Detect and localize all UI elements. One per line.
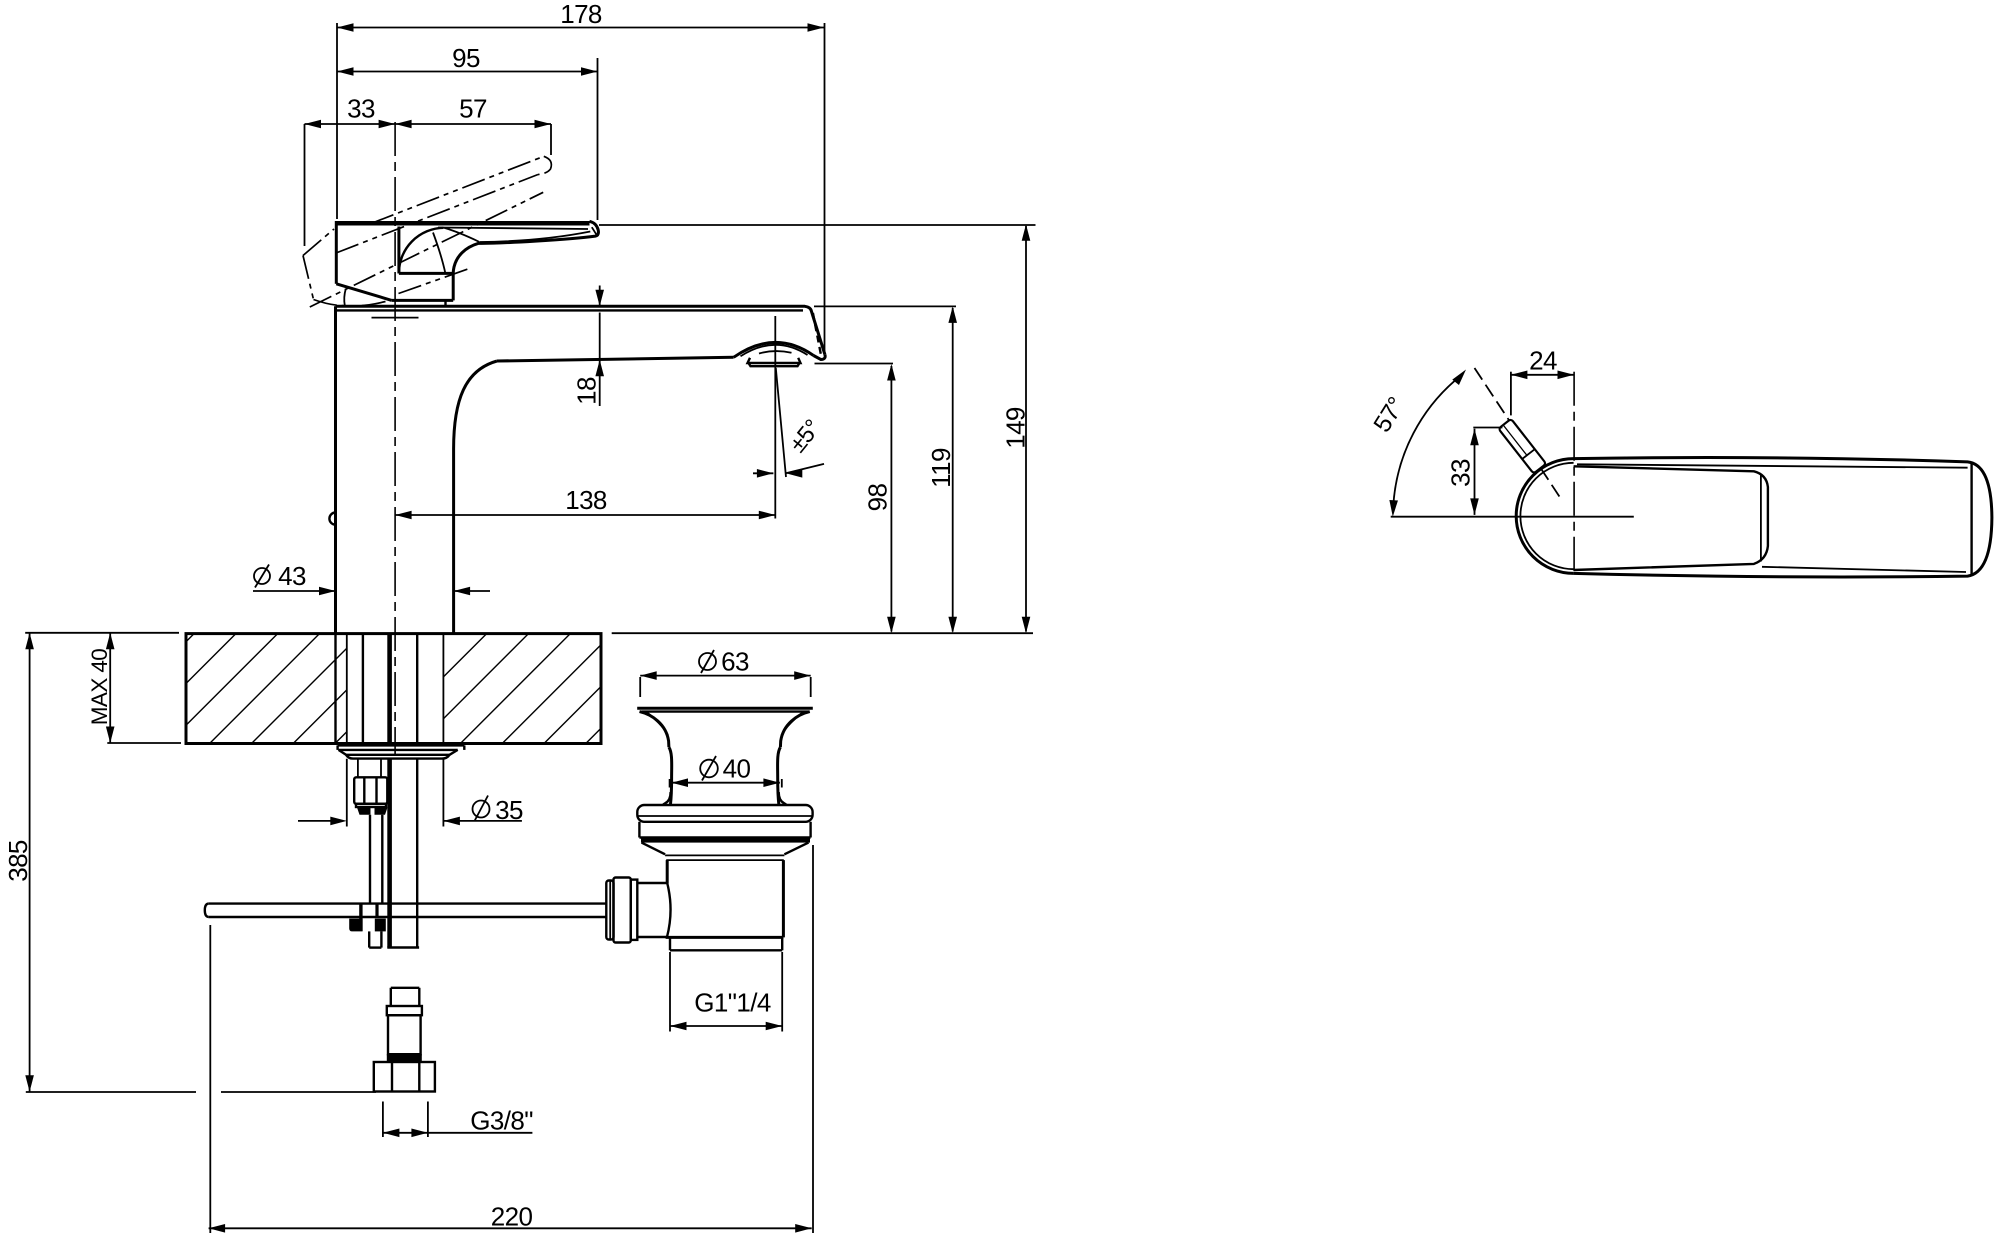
supply connector seal band bbox=[387, 1054, 422, 1062]
handle tip inner line bbox=[592, 227, 597, 235]
supply connector collar bbox=[387, 1006, 422, 1015]
shank outer edge in hole bbox=[334, 634, 336, 744]
rod clamp bbox=[349, 904, 386, 932]
top view handle outer outline bbox=[1574, 458, 1992, 577]
supply connector nut bbox=[374, 1062, 435, 1092]
diameter 35 extension lines bbox=[346, 759, 348, 827]
extension line counter bottom left bbox=[107, 742, 181, 744]
cartridge neck inner curve bbox=[444, 228, 480, 242]
cap plinth top edge bbox=[399, 272, 453, 275]
extension line counter top level bbox=[612, 632, 1033, 634]
drain funnel inner right bbox=[782, 712, 804, 736]
cap plinth right edge bbox=[452, 273, 455, 300]
svg-text:57: 57 bbox=[459, 94, 487, 124]
svg-text:220: 220 bbox=[491, 1202, 533, 1232]
drain flange top bbox=[637, 707, 813, 710]
spout tip inner slant bbox=[813, 313, 821, 355]
dim 138 bbox=[395, 485, 775, 519]
phantom open handle lever lower edge bbox=[336, 175, 538, 254]
top view bottom chamfer line bbox=[1762, 567, 1966, 572]
svg-text:G1"1/4: G1"1/4 bbox=[694, 988, 771, 1018]
extension line outlet level bbox=[815, 363, 894, 365]
cap plinth bottom edge bbox=[392, 299, 454, 302]
handle lever tip and underside bbox=[453, 221, 598, 273]
cartridge dome inner curve bbox=[433, 233, 445, 274]
drain body shoulder bbox=[642, 843, 809, 861]
dim 57 bbox=[395, 94, 551, 156]
extension line handle top level bbox=[599, 224, 1036, 226]
centerline faucet axis bbox=[394, 122, 396, 755]
handle lever top plate bbox=[336, 221, 589, 226]
dim 98 bbox=[863, 364, 896, 633]
dim 220 bbox=[209, 1202, 812, 1233]
svg-text:95: 95 bbox=[452, 43, 480, 73]
svg-text:33: 33 bbox=[1446, 459, 1476, 487]
svg-text:43: 43 bbox=[278, 561, 306, 591]
aerator ring bbox=[748, 358, 801, 363]
spout top surface lower line bbox=[336, 309, 804, 311]
countertop section bbox=[186, 634, 601, 744]
svg-text:MAX 40: MAX 40 bbox=[87, 649, 112, 726]
supply connector top bbox=[391, 988, 420, 1006]
countertop hatching bbox=[186, 634, 194, 642]
svg-text:385: 385 bbox=[3, 840, 33, 882]
aerator bulge inner bbox=[741, 345, 808, 356]
top view vertical centerline bbox=[1573, 372, 1575, 575]
drain gland nut bbox=[614, 878, 631, 943]
phantom handle block left edge bbox=[303, 256, 314, 300]
svg-text:35: 35 bbox=[495, 795, 523, 825]
dim 95 bbox=[337, 43, 598, 220]
drain funnel left side bbox=[640, 712, 669, 748]
jet centerline bbox=[774, 316, 776, 519]
extension line hose end level bbox=[26, 1091, 196, 1093]
rod lower stub bbox=[369, 931, 381, 947]
mounting hole right edge bbox=[442, 634, 444, 744]
extension line counter top left bbox=[25, 632, 179, 634]
dim plus-minus 5 degrees bbox=[753, 415, 825, 478]
flange washer bbox=[338, 745, 465, 758]
cap base step bbox=[444, 300, 446, 306]
drain tailpipe bbox=[670, 937, 782, 950]
drain gland end cap bbox=[606, 881, 613, 940]
phantom handle block top edge bbox=[303, 229, 334, 256]
drain funnel foot right bbox=[779, 792, 787, 805]
pop-up rod bbox=[205, 904, 606, 917]
drain top disk bbox=[637, 805, 812, 822]
dim 385 bbox=[3, 633, 34, 1092]
dim 18 bbox=[572, 286, 605, 407]
mounting hole left edge bbox=[346, 634, 348, 744]
dim 33 top view bbox=[1446, 428, 1503, 515]
extension line 220 left bbox=[209, 925, 211, 1233]
spout underside bbox=[497, 357, 734, 361]
dim G3/8 bbox=[383, 1102, 533, 1138]
supply connector body bbox=[388, 1015, 421, 1054]
spout top surface upper line bbox=[336, 306, 825, 354]
cartridge dome arc bbox=[399, 228, 444, 274]
stem axis line bbox=[1475, 368, 1562, 500]
dim 33 bbox=[305, 94, 396, 247]
handle body left edge bbox=[335, 221, 338, 284]
svg-text:178: 178 bbox=[560, 0, 602, 29]
top view chamfer line bbox=[1577, 464, 1968, 467]
dim diameter 40 bbox=[670, 754, 782, 788]
dim 57 degrees arc bbox=[1369, 367, 1469, 517]
aerator inner arc bbox=[759, 351, 792, 353]
drain side port boss bbox=[638, 883, 671, 937]
drain body bbox=[666, 860, 784, 937]
phantom open handle underside bbox=[399, 269, 469, 294]
phantom handle block bottom edge bbox=[314, 300, 391, 306]
nut washer bbox=[356, 804, 386, 807]
top view pad end inner line bbox=[1760, 474, 1762, 562]
drain funnel inner left bbox=[646, 712, 668, 736]
svg-text:18: 18 bbox=[572, 377, 602, 405]
drain funnel right side bbox=[780, 712, 809, 748]
phantom open handle lever top bbox=[371, 156, 544, 223]
top view pad outline bbox=[1574, 466, 1768, 570]
svg-text:98: 98 bbox=[863, 484, 893, 512]
mounting stud bbox=[357, 759, 359, 778]
handle underside inner line bbox=[480, 232, 590, 243]
shank wall left bbox=[362, 634, 364, 746]
svg-text:138: 138 bbox=[565, 485, 607, 515]
hex nut bbox=[354, 777, 387, 804]
svg-text:119: 119 bbox=[926, 448, 956, 488]
phantom open handle lever bottom bbox=[310, 192, 543, 307]
dim MAX 40 bbox=[87, 633, 115, 743]
top view handle cap inner arc bbox=[1520, 463, 1573, 569]
dim diameter 35 bbox=[298, 795, 523, 825]
hose wall left upper bbox=[387, 634, 392, 746]
handle body bottom slant bbox=[336, 284, 391, 301]
drain funnel foot left bbox=[663, 792, 671, 805]
centerline tick bbox=[372, 317, 419, 319]
drain gasket bbox=[641, 838, 810, 842]
top view horizontal centerline bbox=[1391, 516, 1634, 518]
dim G1 1/4 bbox=[670, 952, 782, 1032]
drain funnel waist sides bbox=[669, 747, 672, 805]
top view handle cap arc bbox=[1516, 459, 1573, 574]
rubber cone seal bbox=[357, 808, 371, 815]
pull rod bbox=[369, 815, 371, 904]
dim 119 bbox=[926, 306, 957, 633]
dim diameter 63 bbox=[640, 647, 811, 698]
body column left edge bbox=[334, 306, 337, 633]
jet tilt line bbox=[776, 368, 786, 477]
drain band bbox=[639, 822, 810, 838]
drain gland spacer bbox=[631, 880, 638, 940]
svg-text:G3/8": G3/8" bbox=[470, 1106, 533, 1136]
dim 149 bbox=[1001, 224, 1031, 633]
phantom handle swing arc bbox=[344, 289, 346, 306]
spout tip bottom bbox=[814, 355, 826, 360]
phantom open handle tip arc bbox=[538, 156, 551, 174]
dim diameter 43 bbox=[253, 561, 490, 595]
extension line spout top level bbox=[814, 305, 956, 307]
svg-text:24: 24 bbox=[1529, 346, 1557, 376]
svg-text:40: 40 bbox=[723, 754, 751, 784]
svg-text:149: 149 bbox=[1001, 407, 1031, 449]
svg-text:63: 63 bbox=[721, 647, 749, 677]
dim 178 bbox=[337, 0, 825, 352]
handle lever top inner line bbox=[438, 228, 588, 230]
aerator bulge outer bbox=[734, 342, 814, 357]
dim 24 bbox=[1511, 346, 1574, 416]
cap plinth left edge bbox=[397, 227, 400, 274]
svg-text:33: 33 bbox=[347, 94, 375, 124]
extension line 220 right bbox=[812, 845, 814, 1233]
hose wall right upper bbox=[416, 634, 418, 746]
top view right end facet bbox=[1970, 464, 1972, 575]
body column right edge bbox=[452, 449, 455, 634]
spout inner corner curve bbox=[454, 361, 497, 449]
set screw bump bbox=[329, 513, 335, 525]
hose lower part bbox=[387, 758, 392, 948]
cartridge stem pin bbox=[1498, 419, 1546, 474]
